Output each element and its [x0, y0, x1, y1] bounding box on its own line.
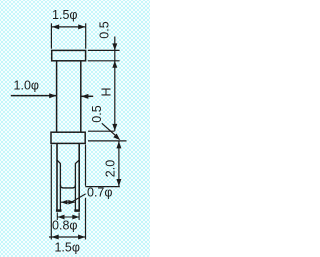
svg-text:0.5: 0.5 — [98, 21, 112, 38]
dimension 2.0 (right) — [85, 142, 120, 187]
wire body right wall — [80, 62, 82, 133]
2.0 top arrowhead — [116, 141, 121, 148]
pin outer left wall — [56, 144, 58, 211]
top 1.5φ left arrowhead — [52, 24, 59, 29]
background lattice — [0, 0, 150, 257]
head 0.5 lower arrowhead — [112, 61, 117, 68]
dimension 0.5 (top flange thickness, right) — [88, 37, 120, 131]
pin tip cap right — [74, 209, 80, 212]
0.8φ right arrowhead — [72, 215, 79, 220]
svg-text:1.0φ: 1.0φ — [14, 79, 39, 93]
svg-text:0.8φ: 0.8φ — [52, 218, 77, 232]
0.8φ left arrowhead — [58, 215, 65, 220]
svg-text:0.5: 0.5 — [90, 105, 104, 122]
dimension 0.7φ (bore diameter) — [61, 201, 75, 203]
bottom 1.5φ left arrowhead — [52, 235, 59, 240]
1.0φ leader arrowhead at left wall — [49, 93, 56, 98]
bore bottom (U shape) — [60, 185, 75, 188]
0.7φ leader line — [70, 194, 86, 203]
svg-text:0.7φ: 0.7φ — [87, 186, 112, 200]
pin inner bore right line — [75, 160, 79, 209]
collar flange — [51, 132, 85, 143]
bottom 1.5φ right arrowhead — [78, 235, 85, 240]
head 0.5 upper arrowhead — [112, 43, 117, 50]
svg-text:1.5φ: 1.5φ — [52, 8, 77, 22]
svg-text:H: H — [100, 87, 114, 96]
pin outer right wall — [78, 144, 80, 211]
0.7φ left arrowhead — [61, 200, 68, 205]
dimension 0.5 (collar thickness, right) — [88, 123, 127, 141]
dimension 0.8φ (pin outer diameter) — [57, 213, 79, 221]
svg-text:2.0: 2.0 — [103, 160, 117, 177]
collar 0.5 leader arrowhead — [113, 134, 120, 141]
leader 1.0φ (body diameter, left) — [11, 95, 56, 97]
top 1.5φ right arrowhead — [78, 24, 85, 29]
H dimension bottom arrowhead — [112, 124, 117, 131]
0.7φ right arrowhead — [68, 200, 75, 205]
2.0 bottom arrowhead — [116, 179, 121, 186]
dimension 1.5φ (top) — [51, 23, 85, 48]
pin inner bore left line — [57, 160, 60, 209]
wire body left wall — [56, 62, 58, 133]
1.0φ right-side arrow — [81, 95, 93, 97]
svg-text:1.5φ: 1.5φ — [54, 241, 79, 255]
dimension 1.5φ (bottom, collar diameter) — [49, 145, 86, 240]
top flange (head) of pin — [52, 50, 86, 60]
pin tip cap left — [56, 209, 62, 212]
